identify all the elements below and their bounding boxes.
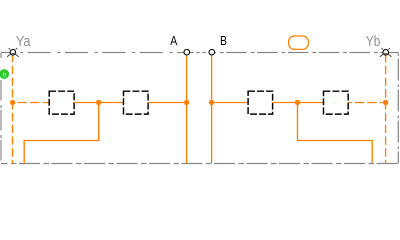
boundary right edge	[397, 53, 399, 164]
junction below B	[209, 100, 214, 105]
wire B vertical	[211, 56, 213, 163]
junction below A	[184, 100, 189, 105]
wire left return: node1 down, left, down to boundary	[24, 103, 99, 164]
port Ya circle	[10, 50, 16, 56]
node B circle	[209, 49, 215, 55]
junction on Yb wire	[383, 100, 388, 105]
component box T1	[49, 91, 74, 114]
junction node 1	[96, 100, 101, 105]
port Ya cross ticks	[7, 48, 19, 57]
wire Yb vertical dashed	[385, 56, 387, 163]
wire T3 to T4	[273, 102, 324, 104]
port Yb circle	[383, 50, 389, 56]
svg-text:Ya: Ya	[16, 34, 31, 50]
wire Ya vertical dashed	[12, 56, 14, 163]
component box T4	[324, 91, 349, 114]
green badge	[0, 69, 9, 79]
svg-text:B: B	[220, 33, 227, 48]
wire A vertical	[186, 56, 188, 163]
svg-text:A: A	[170, 33, 177, 48]
wire node B to T3	[212, 102, 248, 104]
component box T2	[124, 91, 149, 114]
wire Ya to T1 dashed	[16, 102, 49, 104]
port Yb cross ticks	[380, 48, 392, 57]
boundary left edge	[0, 53, 2, 66]
junction node 2	[295, 100, 300, 105]
wire right return: node2 down, right, down to boundary	[298, 103, 373, 164]
wire T2 to node A	[148, 102, 186, 104]
junction on Ya wire	[10, 100, 15, 105]
wire T1 to T2	[74, 102, 123, 104]
boundary bottom edge	[1, 163, 399, 165]
oval marker above line	[289, 36, 309, 49]
boundary top edge	[1, 52, 399, 54]
wire T4 to Yb dashed	[348, 102, 382, 104]
svg-text:Yb: Yb	[366, 34, 380, 50]
node A circle	[184, 49, 190, 55]
component box T3	[248, 91, 273, 114]
